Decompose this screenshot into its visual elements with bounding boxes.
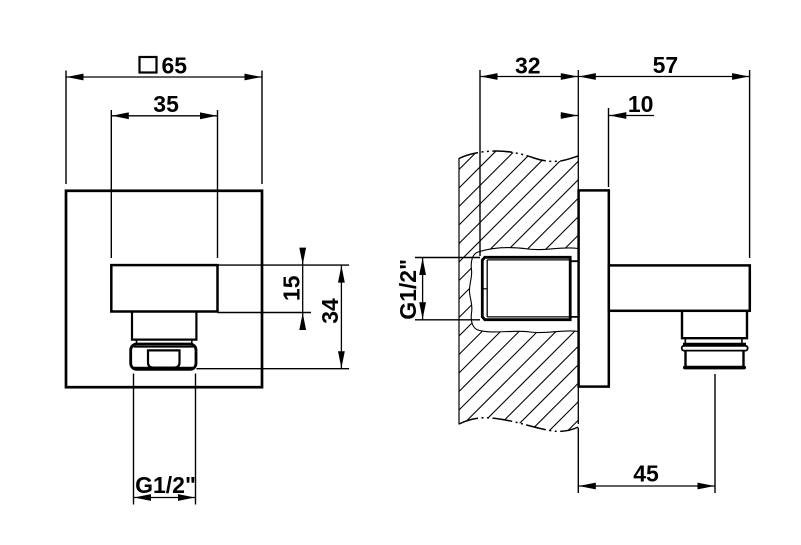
dim G1/2 side: dimension line <box>422 258 424 320</box>
nut top chamfer line <box>134 346 194 348</box>
fitting-to-wall stubs <box>571 261 578 317</box>
dim 57: right arrow <box>732 73 749 80</box>
dim 34: dimension line (arrows inside) <box>340 265 342 369</box>
dim G1/2 side: top arrow <box>419 258 426 275</box>
svg-text:G1/2": G1/2" <box>135 472 196 498</box>
dim 45: right extension line <box>714 374 716 493</box>
wall top break line (dash-dot-dot) <box>459 151 578 161</box>
dim 32: right arrow <box>561 73 578 80</box>
outlet neck side view <box>685 338 742 343</box>
fitting mid tick <box>481 288 487 290</box>
spout arm side view <box>609 265 750 310</box>
outlet collar side view <box>682 346 748 351</box>
svg-text:34: 34 <box>317 298 343 324</box>
wall clearance pocket (white blob around fitting) <box>469 248 578 333</box>
dim 15: top arrow <box>299 248 306 265</box>
svg-text:57: 57 <box>653 52 679 78</box>
wall face line <box>577 70 579 424</box>
wall left edge <box>458 158 460 425</box>
dim 32: dimension line <box>480 76 578 78</box>
dim G1/2 side: extension lines <box>415 258 480 320</box>
dim G1/2 front: extension lines <box>134 374 196 505</box>
dim 45: left extension line <box>577 428 579 493</box>
dim 65: extension lines <box>66 71 262 185</box>
outlet step side view <box>682 311 747 338</box>
dim 65: dimension line <box>66 76 262 78</box>
dim 34: top arrow <box>338 266 345 283</box>
svg-text:65: 65 <box>162 53 188 79</box>
dim 57: left arrow <box>579 73 596 80</box>
dim G1/2 front: left arrow <box>134 494 151 501</box>
dim 10: left tail and arrow (outside) <box>561 115 579 117</box>
dim 32: left extension line <box>479 70 481 256</box>
dim 35: left arrow <box>112 112 129 119</box>
dim 15/34 shared top extension line <box>218 264 350 266</box>
dim 35: dimension line <box>111 115 217 117</box>
fitting chamfer inner lines <box>487 260 569 317</box>
nut bottom thick edge <box>134 367 193 370</box>
dim 34 bottom extension line <box>196 368 349 370</box>
dim 15 middle extension line <box>218 312 312 314</box>
dim G1/2 front: right arrow <box>178 494 195 501</box>
svg-text:G1/2": G1/2" <box>395 259 421 320</box>
aerator nut body side view <box>686 351 744 367</box>
dim 35: right arrow <box>200 112 217 119</box>
dim 45: left arrow <box>579 483 596 490</box>
spout step front view <box>132 312 196 340</box>
dim 34: bottom arrow <box>338 351 345 368</box>
svg-text:15: 15 <box>279 275 305 301</box>
spout body front view <box>111 265 217 311</box>
svg-text:45: 45 <box>633 461 659 487</box>
dim 32: left arrow <box>481 73 498 80</box>
dim 65: square symbol <box>140 57 157 73</box>
nut hex flat front view <box>148 350 180 367</box>
svg-text:10: 10 <box>628 91 654 117</box>
dim 57: dimension line <box>578 76 749 78</box>
svg-text:32: 32 <box>515 53 541 79</box>
dim G1/2 front: dimension line <box>134 497 196 499</box>
outlet flange thick line <box>683 343 746 346</box>
dim 10: right tail and arrow (outside) <box>609 115 654 117</box>
dim 45: dimension line <box>578 485 715 487</box>
dim 10: extension line <box>608 108 610 187</box>
dim 65: right arrow <box>245 74 262 81</box>
pipe fitting (G1/2 socket) side section <box>482 257 570 319</box>
wall plate front view (square escutcheon) <box>66 191 262 387</box>
nut bottom thick edge side view <box>685 366 744 370</box>
dim 15: bottom arrow <box>299 313 306 330</box>
dim 57: right extension line <box>749 70 751 258</box>
dim G1/2 side: bottom arrow <box>419 302 426 319</box>
svg-text:35: 35 <box>153 91 179 117</box>
dim 35: extension lines <box>111 110 217 258</box>
wall bottom break line (dash-dot-dot) <box>459 418 578 432</box>
dim 15: dimension line (arrows outside) <box>302 250 304 330</box>
neck ticks front view <box>137 340 192 344</box>
dim 45: right arrow <box>698 483 715 490</box>
dim 65: left arrow <box>67 74 84 81</box>
aerator nut front view <box>131 344 196 369</box>
wall plate side view <box>579 190 609 386</box>
